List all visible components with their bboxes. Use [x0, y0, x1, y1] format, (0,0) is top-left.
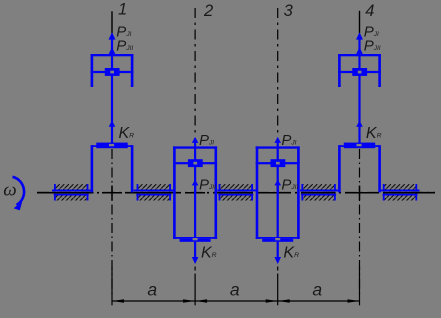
cylinder 1 crank pin block [96, 143, 127, 149]
main bearing B4 [381, 184, 420, 201]
cylinder 2 piston crown [173, 146, 217, 148]
svg-text:ω: ω [3, 179, 16, 200]
svg-text:a: a [312, 279, 322, 299]
cylinder 3 centerline top dash-dot [277, 8, 279, 136]
svg-text:a: a [230, 279, 240, 299]
cylinder 3 piston skirt / crank web sides [256, 146, 259, 239]
cylinder 4 centerline lower dash-dot [359, 149, 361, 296]
dimension extension line cylinder 1 [111, 267, 113, 305]
dimension arrows segment a2 [196, 299, 207, 302]
main bearing B2 [217, 184, 256, 201]
cylinder 4 crank pin block [344, 143, 375, 149]
cylinder 1 piston pin block [105, 68, 120, 76]
cylinder 1 piston pin mid line [91, 71, 134, 73]
crankshaft main axis dash-dot [37, 192, 435, 194]
axis solid under bearing B1 [137, 192, 171, 194]
cylinder 3 piston crown [256, 146, 300, 148]
cylinder 4 inertia force arrows PjI PjII [358, 36, 360, 55]
dimension arrows segment a3 [278, 299, 289, 302]
cylinder 2 centerline top dash-dot [194, 8, 196, 136]
cylinder 1 crank pin line [91, 145, 133, 147]
cylinder 1 piston crown [91, 54, 134, 56]
cylinder 1 crank webs [91, 145, 94, 192]
cylinder 3 piston pin block [271, 159, 286, 167]
cylinder 3 axis cross segment [268, 192, 288, 194]
cylinder 3 centerline bottom [277, 267, 279, 271]
main bearing B3 [300, 184, 338, 201]
svg-text:3: 3 [284, 2, 294, 20]
cylinder 2 centerline bottom [194, 267, 196, 271]
main bearing B0 [52, 184, 91, 201]
cylinder 1 KR arrow head (up) [109, 121, 116, 127]
axis solid left end + bearing B0 [37, 192, 94, 194]
cylinder 2 piston skirt / crank web sides [173, 146, 176, 239]
svg-text:4: 4 [365, 2, 374, 20]
cylinder 3 connecting rod [277, 148, 279, 239]
cylinder 4 piston crown [338, 54, 381, 56]
main bearing B1 [134, 184, 174, 201]
svg-text:1: 1 [118, 1, 127, 19]
cylinder 1 inertia force arrows PjI PjII [111, 36, 113, 55]
dimension extension line cylinder 4 [359, 267, 361, 305]
cylinder 3 inertia arrow PjII below piston [274, 180, 281, 186]
cylinder 1 axis cross [102, 192, 122, 194]
cylinder 4 piston pin mid line [338, 71, 381, 73]
cylinder 2 axis cross segment [185, 192, 205, 194]
cylinder 2 crank pin block [180, 239, 211, 242]
cylinder 1 centerline top [111, 11, 113, 33]
dimension arrows segment a1 [113, 299, 124, 302]
cylinder 4 crank webs [338, 145, 341, 192]
cylinder 4 piston skirts [338, 54, 341, 87]
dimension extension line cylinder 2 [194, 274, 196, 306]
cylinder 2 KR arrow (down) [194, 242, 196, 258]
omega rotation arc [13, 177, 25, 205]
cylinder 2 inertia arrow PjII below piston [192, 180, 199, 186]
cylinder 4 centerline top [359, 11, 361, 34]
cylinder 2 crank pin line [173, 237, 217, 239]
cylinder 2 piston pin block [188, 159, 203, 167]
axis solid under bearing B2 [219, 192, 253, 194]
cylinder 1 piston skirts [91, 54, 94, 87]
cylinder 2 connecting rod [194, 148, 196, 239]
cylinder 2 piston pin mid line [173, 162, 217, 164]
cylinder 4 crank pin line [339, 145, 381, 147]
svg-text:a: a [147, 279, 157, 299]
cylinder 3 crank pin line [256, 237, 300, 239]
cylinder 3 piston pin mid line [256, 162, 300, 164]
cylinder 4 connecting rod [358, 56, 360, 143]
cylinder 1 centerline lower dash-dot [111, 149, 113, 296]
cylinder 3 KR arrow (down) [277, 242, 279, 258]
svg-text:2: 2 [203, 2, 213, 20]
axis solid bearing B4 + right end [383, 192, 435, 194]
cylinder 3 inertia arrow PjI above piston [277, 141, 279, 147]
dimension line [112, 300, 360, 302]
cylinder 4 axis cross [350, 192, 370, 194]
cylinder 2 inertia arrow PjI above piston [194, 141, 196, 147]
cylinder 4 KR arrow head (up) [356, 121, 363, 127]
cylinder 4 piston pin block [352, 68, 367, 76]
axis solid under bearing B3 [302, 192, 336, 194]
cylinder 3 crank pin block [262, 239, 293, 242]
dimension extension line cylinder 3 [277, 274, 279, 306]
cylinder 1 connecting rod [111, 56, 113, 143]
